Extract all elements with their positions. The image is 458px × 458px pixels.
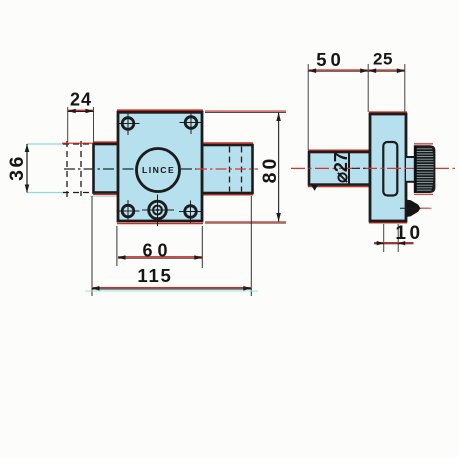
cylinder (side view) xyxy=(309,152,370,185)
locking button cone xyxy=(400,200,432,217)
knurled knob xyxy=(414,144,436,194)
knob neck xyxy=(406,157,415,182)
svg-text:115: 115 xyxy=(137,265,172,286)
svg-text:50: 50 xyxy=(316,49,345,70)
centerline dark segment in cylinder xyxy=(352,167,369,169)
centerline left view (red part) xyxy=(196,168,258,170)
right bolt stub bottom red fringe xyxy=(202,194,253,196)
screw hole bottom-right xyxy=(179,201,202,224)
bolt stub dashed lines xyxy=(230,147,242,192)
left stub (bolt housing) xyxy=(94,144,119,193)
screw hole bottom-left xyxy=(117,200,140,223)
left stub (bolt housing) red fringe xyxy=(93,141,118,143)
red fringe over dashed stub line xyxy=(62,142,93,144)
screw hole top-left xyxy=(117,113,140,136)
svg-text:⌀27: ⌀27 xyxy=(331,152,351,183)
dimension 50/25 line xyxy=(308,68,405,73)
dimension 10 extension lines xyxy=(384,224,399,252)
svg-text:36: 36 xyxy=(6,154,28,181)
side body bottom red fringe xyxy=(369,222,407,224)
dimension 50/25 extension lines xyxy=(308,64,405,150)
dimension 115 cyan under-fringe xyxy=(85,290,258,292)
svg-text:25: 25 xyxy=(373,50,393,69)
dimension 115 extension lines xyxy=(92,196,251,296)
lock body red fringe top xyxy=(117,109,203,111)
dimension 10 line xyxy=(374,241,414,245)
cylinder flange line xyxy=(348,152,350,185)
right bolt stub xyxy=(202,145,253,193)
svg-text:60: 60 xyxy=(142,240,172,260)
svg-text:LINCE: LINCE xyxy=(142,165,175,175)
dimension 36 line xyxy=(25,144,30,193)
faceplate slot xyxy=(383,142,397,196)
centerline right view (red) xyxy=(291,167,455,169)
side body red fringe xyxy=(369,111,407,113)
cylinder red fringe xyxy=(308,149,370,151)
bolt extended position dashed lines xyxy=(63,141,95,197)
lock body red fringe bottom xyxy=(117,223,203,225)
cylinder bottom red fringe xyxy=(308,186,369,188)
svg-text:24: 24 xyxy=(70,90,92,110)
dimension 24 extension lines xyxy=(68,107,94,142)
dimension 60 extension lines xyxy=(117,226,202,268)
key cylinder xyxy=(142,195,174,227)
dimension 80 extension lines xyxy=(205,111,286,223)
cylinder fixing pin triangle xyxy=(311,185,318,191)
dimension 24 line xyxy=(68,109,94,113)
dimension 80 line xyxy=(276,113,281,222)
screw hole top-right xyxy=(180,112,203,135)
svg-text:10: 10 xyxy=(395,223,423,244)
left stub bottom red+cyan fringe xyxy=(90,194,118,196)
svg-text:80: 80 xyxy=(259,156,281,184)
LINCE logo circle xyxy=(137,149,180,192)
dimension 115 line xyxy=(92,286,252,291)
dimension 60 line xyxy=(118,255,203,260)
side body xyxy=(370,114,406,221)
right bolt stub red fringe xyxy=(202,142,253,144)
centerline left view (black part) xyxy=(64,168,196,170)
strike box extension lines (cyan) xyxy=(27,144,66,193)
lock body xyxy=(118,112,202,221)
